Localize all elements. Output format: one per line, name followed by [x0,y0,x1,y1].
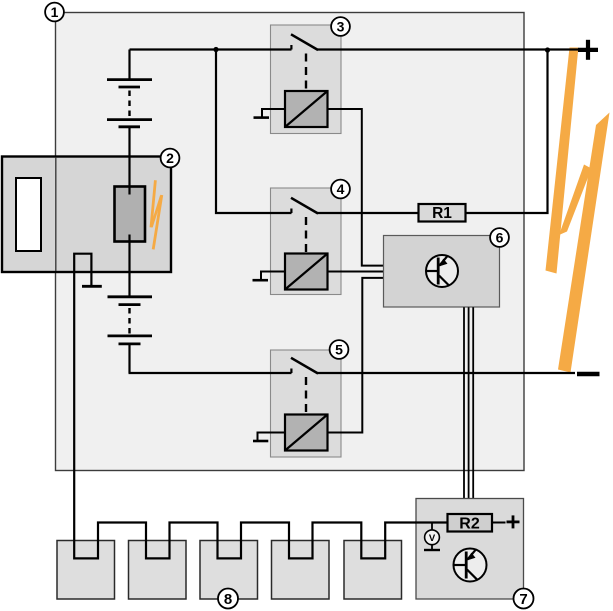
branch wire down to R1 [466,50,548,213]
svg-text:3: 3 [337,19,345,35]
orange bolt return stroke [559,165,592,236]
small orange bolt stroke 3 [153,195,162,249]
minus terminal symbol [577,372,600,377]
voltmeter ground lead [431,545,433,550]
relay 5 coil [285,415,328,451]
wire box2 to lower battery [128,241,130,296]
glow plug 2 [129,541,187,600]
upper battery cell plate long [107,78,152,81]
label circle 8 [218,589,238,609]
label circle 1 [45,3,64,22]
glow plug 1 [57,541,115,600]
wire battery top to plus row [128,128,130,186]
svg-text:5: 5 [335,342,343,358]
upper battery cell plate short [119,86,141,89]
wire relay 4 coil to module 6 [328,271,384,273]
relay 4 coil ground stub [261,272,285,280]
upper battery cell plate short 2 [119,125,141,128]
small orange bolt stroke 1 [151,180,155,227]
lower battery dashed link [128,308,130,334]
box 1 left border through box 2 [55,158,57,271]
lower battery cell plate long [108,295,153,298]
label circle 5 [330,340,349,359]
wire stub into element bottom [128,235,130,243]
svg-text:7: 7 [519,591,527,608]
label circle 6 [490,228,509,247]
wire into box 7 to R2 [415,521,448,523]
branch wire down to relay 4 row [216,50,292,214]
glow plug 4 [272,541,330,600]
label circle 2 [161,149,180,168]
voltmeter ground bar [424,549,440,551]
relay 3 box [271,25,342,134]
relay 5 ground bar [253,440,268,443]
relay 5 output wire to minus terminal [318,372,576,374]
small orange bolt stroke 2 [152,196,162,227]
junction node at relay 3 input branch [213,47,218,52]
wire stub into element top [128,186,130,195]
lower battery cell plate long 2 [108,334,153,337]
relay 3 switch blade [291,34,318,50]
connector window [16,178,41,251]
plus mark in box 7 [507,515,520,528]
ground bar under box 2 [82,285,102,288]
orange bolt (plus cable) [546,48,579,274]
upper battery dashed link [128,91,130,118]
orange bolt (minus cable) [558,113,610,373]
box2 bottom terminal loop [74,254,91,286]
wire module 6 to relay 5 coil [328,278,384,433]
plus feed wire from battery to relay 3 contact [130,48,292,50]
transistor symbol in box 7 [454,549,487,582]
svg-text:V: V [429,533,436,544]
wire battery top terminal [128,50,130,79]
voltmeter symbol V [425,530,440,545]
relay 4 fixed contact tick [290,209,292,214]
relay 5 coil link dashed [305,377,307,414]
resistor R1 [419,204,466,222]
relay 5 box [271,350,342,457]
transistor symbol in module 6 [426,255,458,287]
lower battery cell plate short [119,303,141,306]
relay 3 coil [285,91,328,127]
glow plug 3 [200,541,258,600]
triple harness lines module 6 to module 7 [464,307,473,498]
svg-text:1: 1 [51,4,59,20]
controller box 7 [416,499,524,600]
svg-text:R2: R2 [459,516,480,533]
svg-text:8: 8 [224,591,232,608]
junction node at plus terminal branch [545,47,550,52]
label circle 4 [331,180,350,199]
relay 4 box [271,188,342,295]
glow plug 5 [344,541,402,600]
wire battery bottom to minus row [128,345,130,373]
relay 3 coil ground stub [262,109,285,117]
relay 4 coil [285,254,328,290]
relay 4 switch blade [291,198,318,214]
label circle 7 [514,589,534,609]
relay 5 switch blade [291,358,318,374]
svg-text:2: 2 [166,150,174,166]
lower battery cell plate short 2 [119,342,141,345]
svg-text:6: 6 [496,230,504,246]
voltage probe lead [431,523,433,531]
sense resistor element in box 2 [115,187,146,242]
sensor box 2 [2,157,171,273]
relay 4 coil link dashed [305,217,307,253]
relay 3 fixed contact tick [290,45,292,50]
svg-text:4: 4 [337,181,345,197]
relay 3 coil link dashed [305,54,307,91]
resistor R2 [448,514,493,533]
plus terminal symbol [578,40,598,60]
minus feed wire from battery to relay 5 contact [129,372,292,374]
relay 3 output wire to plus terminal [318,48,579,50]
relay 3 ground bar [254,116,270,119]
driver module box 6 [384,236,500,308]
upper battery cell plate long 2 [107,118,152,121]
relay 5 fixed contact tick [290,369,292,374]
relay 4 ground bar [253,279,269,282]
label circle 3 [331,17,350,36]
glow plug feed wire and terminal loops chain [74,272,447,558]
relay 5 coil ground stub [258,433,286,441]
control unit box 1 [56,13,525,471]
wire R2 to plus mark [492,522,506,524]
relay 4 output wire to R1 [318,212,419,214]
wire relay 3 coil to module 6 [328,109,384,266]
svg-text:R1: R1 [432,205,452,222]
